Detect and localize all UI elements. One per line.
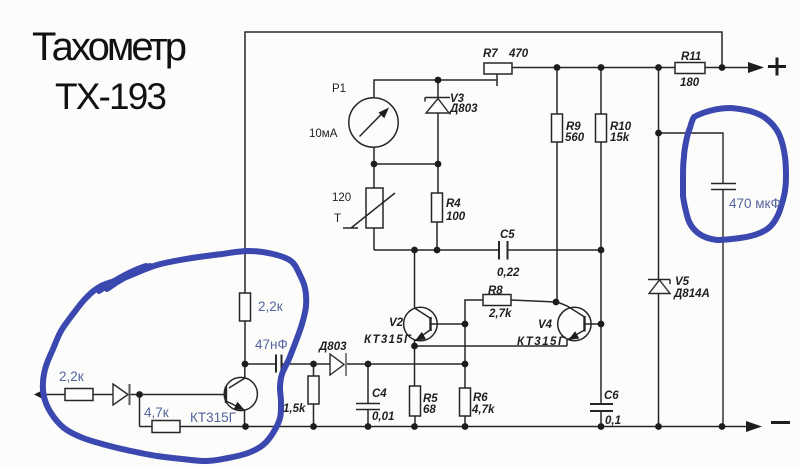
- svg-text:Д814А: Д814А: [673, 288, 710, 300]
- svg-text:0,22: 0,22: [497, 267, 520, 279]
- svg-text:4,7k: 4,7k: [471, 404, 495, 416]
- svg-text:0,01: 0,01: [372, 411, 394, 423]
- svg-text:100: 100: [446, 211, 466, 223]
- svg-text:180: 180: [680, 77, 700, 89]
- svg-text:68: 68: [423, 404, 436, 416]
- svg-text:47нФ: 47нФ: [255, 337, 288, 352]
- svg-text:R7: R7: [483, 48, 498, 60]
- svg-text:V4: V4: [538, 319, 553, 331]
- svg-text:ТХ-193: ТХ-193: [55, 76, 167, 117]
- svg-text:Д803: Д803: [318, 341, 347, 353]
- svg-text:2,7k: 2,7k: [488, 308, 512, 320]
- svg-text:Тахометр: Тахометр: [32, 25, 187, 69]
- svg-text:R8: R8: [488, 285, 503, 297]
- svg-text:4,7к: 4,7к: [144, 405, 169, 420]
- svg-text:C4: C4: [372, 388, 387, 400]
- svg-text:V5: V5: [675, 276, 690, 288]
- svg-text:КТ315Г: КТ315Г: [190, 410, 237, 425]
- svg-text:2,2к: 2,2к: [59, 369, 84, 384]
- svg-text:560: 560: [565, 132, 585, 144]
- svg-text:V2: V2: [389, 317, 404, 329]
- svg-text:R6: R6: [473, 392, 488, 404]
- svg-text:0,1: 0,1: [605, 415, 621, 427]
- svg-text:470 мкФ: 470 мкФ: [729, 196, 781, 211]
- svg-text:T: T: [334, 213, 341, 225]
- svg-text:1,5k: 1,5k: [283, 403, 306, 415]
- svg-text:КТ315Г: КТ315Г: [364, 334, 412, 346]
- svg-text:Д803: Д803: [449, 103, 478, 115]
- svg-text:R11: R11: [681, 51, 701, 63]
- svg-text:P1: P1: [332, 83, 346, 95]
- svg-text:R4: R4: [446, 198, 461, 210]
- svg-text:10мА: 10мА: [309, 128, 338, 140]
- svg-text:C6: C6: [604, 390, 619, 402]
- svg-text:120: 120: [332, 192, 351, 204]
- svg-text:2,2к: 2,2к: [258, 299, 283, 314]
- svg-text:C5: C5: [500, 229, 515, 241]
- svg-text:15k: 15k: [610, 132, 630, 144]
- svg-text:470: 470: [508, 48, 529, 60]
